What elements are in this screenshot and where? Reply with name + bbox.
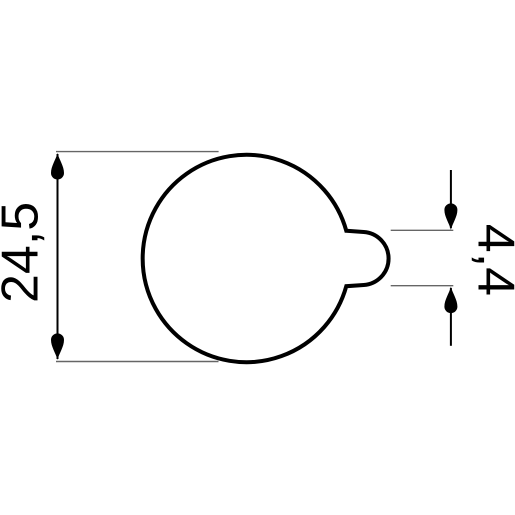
- extension line bottom-left: [56, 361, 219, 363]
- extension line top-right: [391, 229, 454, 231]
- main circle outline with side bump (part profile): [143, 155, 389, 362]
- arrow down (left dim, bottom): [51, 333, 64, 360]
- dimension line left (24,5): [57, 154, 59, 359]
- extension line bottom-right: [391, 285, 454, 287]
- arrow up (right dim, bottom): [444, 287, 457, 314]
- svg-text:4,4: 4,4: [467, 224, 515, 296]
- arrow up (left dim, top): [51, 153, 64, 180]
- svg-text:24,5: 24,5: [0, 202, 50, 303]
- dimension line right-bottom (4,4): [450, 288, 452, 346]
- extension line top-left: [56, 151, 219, 153]
- dimension line right-top (4,4): [450, 170, 452, 228]
- arrow down (right dim, top): [444, 203, 457, 229]
